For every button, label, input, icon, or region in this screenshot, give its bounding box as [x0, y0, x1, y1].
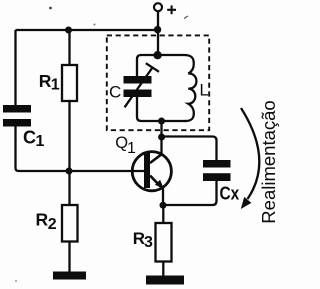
wire Cx to emitter rail	[163, 181, 217, 205]
ground under R3	[146, 276, 184, 285]
dashed box tank circuit	[107, 35, 209, 130]
wire top rail	[16, 29, 159, 31]
svg-text:2: 2	[48, 216, 57, 233]
supply terminal +	[154, 3, 176, 14]
wire tank bottom	[137, 97, 187, 121]
resistor R1	[39, 30, 77, 171]
svg-text:Cx: Cx	[220, 183, 240, 203]
resistor R2	[36, 171, 78, 272]
ground under R2	[53, 272, 86, 280]
svg-text:Realimentação: Realimentação	[258, 100, 279, 223]
svg-text:1: 1	[36, 133, 45, 150]
transistor Q1	[115, 134, 171, 191]
svg-text:3: 3	[144, 234, 153, 251]
wire base rail	[19, 170, 147, 172]
wire tank top	[137, 55, 184, 76]
node junction tank bottom	[158, 118, 165, 125]
node junction base rail / R1-R2	[66, 168, 73, 175]
inductor L	[184, 55, 209, 121]
svg-text:R: R	[36, 210, 49, 230]
wire emitter	[162, 189, 164, 206]
svg-text:L: L	[200, 81, 209, 99]
capacitor Cx	[203, 160, 239, 203]
wire collector into transistor	[160, 137, 162, 155]
svg-text:1: 1	[51, 77, 60, 94]
wire supply stem	[157, 11, 159, 30]
speck artifacts	[15, 7, 188, 282]
wire collector junction to Cx	[162, 137, 217, 161]
variable capacitor C	[109, 63, 159, 107]
wire C1 to base rail	[16, 127, 19, 172]
feedback arrow	[241, 108, 260, 209]
wire tank to collector	[160, 121, 162, 137]
node junction top rail / supply	[154, 26, 161, 33]
svg-text:C: C	[109, 83, 121, 102]
svg-text:C: C	[23, 128, 36, 148]
resistor R3	[133, 205, 172, 276]
capacitor C1	[3, 105, 45, 150]
node junction top rail / R1	[65, 27, 72, 34]
node junction emitter	[160, 202, 167, 209]
wire left drop to C1	[14, 30, 16, 105]
node junction tank top	[153, 51, 161, 59]
node junction collector	[158, 134, 165, 141]
wire supply drop to tank	[157, 30, 159, 55]
svg-text:1: 1	[127, 140, 136, 157]
